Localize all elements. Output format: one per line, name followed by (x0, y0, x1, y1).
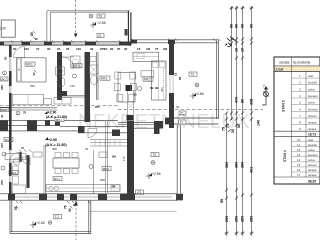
svg-text:11: 11 (297, 143, 300, 147)
chain tick cluster lower (225, 189, 253, 200)
svg-text:13: 13 (297, 153, 301, 157)
svg-text:10: 10 (235, 48, 239, 52)
svg-text:T3: T3 (190, 73, 194, 77)
pier middle band 2c (55, 120, 60, 125)
svg-text:255: 255 (95, 105, 100, 109)
toilet WC2 (91, 76, 98, 85)
label MK1 lower dining (53, 177, 62, 181)
svg-text:2M: 2M (163, 47, 168, 51)
chain labels top (230, 24, 254, 28)
yellow floor row 2.kat (275, 66, 320, 71)
label Z1 right (179, 111, 186, 115)
chairs lower dining bottom (55, 169, 61, 174)
svg-text:380: 380 (241, 162, 245, 168)
pier bottom wall 2 (39, 194, 47, 200)
table header row (274, 65, 320, 67)
svg-text:250: 250 (235, 216, 239, 222)
svg-text:MK1: MK1 (101, 77, 108, 81)
label MK2 lower (102, 167, 111, 171)
right terrace outer edge (217, 40, 219, 119)
corridor walls lower (106, 121, 108, 193)
svg-text:90: 90 (47, 47, 51, 51)
pier middle band 1 (0, 120, 8, 130)
bedroom bottom wall (0, 108, 57, 110)
middle wall band right lines (118, 122, 163, 128)
terrace T3 lower-right: right edge (177, 125, 180, 201)
svg-text:STAN 4: STAN 4 (283, 150, 287, 162)
window thin lines top wall (4, 43, 131, 44)
pier bottom wall 5 (98, 194, 107, 200)
shower bath1 (71, 56, 81, 68)
label T3 lower-right terrace (151, 153, 159, 157)
pier top-right wall a (131, 40, 137, 44)
svg-text:250: 250 (0, 180, 4, 185)
label MK1 above band (55, 118, 64, 122)
label MK3 bath1 (72, 64, 82, 68)
label Z1 top terrace (97, 34, 104, 38)
bath bottom wall (57, 91, 67, 96)
window gap left wall lower (9, 150, 12, 163)
svg-text:Z1: Z1 (180, 121, 184, 125)
svg-text:90: 90 (250, 24, 254, 28)
svg-text:75: 75 (222, 127, 226, 131)
terrace step line below bottom wall (89, 210, 177, 212)
middle band right part under terrace T3 (165, 118, 218, 124)
door arc entry (88, 129, 97, 138)
svg-text:95: 95 (66, 47, 70, 51)
svg-text:soba: soba (308, 101, 315, 105)
svg-text:170: 170 (122, 156, 126, 161)
svg-text:25: 25 (117, 47, 121, 51)
window gap left wall (9, 57, 12, 71)
circled 1 living (138, 87, 142, 91)
circled label left low (2, 152, 6, 156)
svg-text:15: 15 (174, 72, 178, 76)
pier top wall 6 (119, 42, 131, 46)
svg-text:+2.90: +2.90 (48, 111, 57, 115)
chain tick cluster middle (225, 112, 253, 133)
cabinet row lower-left bottom (13, 185, 26, 194)
pier middle band 5 (154, 121, 163, 128)
svg-text:388: 388 (52, 147, 57, 151)
chain labels mid1 (235, 48, 254, 105)
wall WC right (97, 52, 99, 100)
pier top wall 2 (22, 42, 31, 46)
svg-text:365: 365 (250, 99, 254, 105)
window gap left wall mid (9, 86, 12, 93)
ticks on top wall (11, 38, 221, 43)
svg-text:90: 90 (110, 47, 114, 51)
dimension marks bottom area (16, 201, 91, 209)
table row numbers and names STAN 4 (297, 138, 318, 177)
door arc bath1 (62, 57, 74, 69)
svg-text:71: 71 (226, 124, 230, 128)
svg-text:250: 250 (241, 216, 245, 222)
svg-text:kupaon: kupaon (308, 153, 318, 157)
circled dot lower-right (151, 161, 155, 165)
svg-text:30: 30 (134, 93, 138, 97)
chain top end ticks (230, 7, 254, 10)
svg-text:90: 90 (235, 24, 239, 28)
svg-text:soba: soba (308, 148, 315, 152)
dense tick cluster at wall/chain crossing (227, 37, 237, 47)
pier right band (165, 118, 172, 124)
svg-text:dnevni: dnevni (308, 163, 317, 167)
pier bottom wall 3 (57, 194, 64, 200)
window thin lines bottom wall (15, 196, 172, 197)
chairs upper dining (115, 72, 121, 79)
svg-text:285: 285 (0, 85, 4, 90)
vertical dimension chain lines right side (231, 6, 233, 120)
svg-text:T3: T3 (152, 153, 156, 157)
bed bedroom1 (17, 58, 46, 82)
table outer border (274, 57, 320, 184)
interior wall stub (154, 121, 160, 134)
circled dot bottom terrace (48, 221, 52, 225)
svg-text:55: 55 (14, 206, 18, 210)
svg-text:terasa: terasa (308, 168, 317, 172)
svg-text:hodnik: hodnik (308, 143, 317, 147)
top outer wall band left section lines (0, 42, 131, 45)
interior wall lower right thick (126, 85, 133, 91)
circled 5 bath (73, 74, 77, 78)
middle wall band left lines (0, 120, 118, 130)
label MK3 bedroom1 (25, 62, 35, 66)
svg-text:75: 75 (155, 47, 159, 51)
window gap left wall low2 (9, 176, 12, 182)
svg-text:80: 80 (241, 99, 245, 103)
svg-text:MK3: MK3 (73, 64, 80, 68)
svg-text:90: 90 (4, 56, 8, 60)
svg-text:soba: soba (308, 87, 315, 91)
label Z1 right band (179, 120, 187, 124)
svg-text:kupaon: kupaon (308, 94, 318, 98)
svg-text:30: 30 (68, 208, 72, 212)
door arc lower-left b (22, 157, 30, 165)
divider lower-left (44, 145, 45, 194)
svg-text:90: 90 (32, 72, 36, 76)
svg-text:14: 14 (297, 158, 301, 162)
svg-text:STAN 5: STAN 5 (282, 100, 286, 112)
hall cabinets (44, 99, 52, 105)
dining table upper (118, 73, 135, 103)
terrace T2 right edge (89, 200, 91, 234)
svg-text:Z1: Z1 (98, 34, 102, 38)
svg-text:30: 30 (231, 129, 235, 133)
svg-text:MK2: MK2 (1, 77, 8, 81)
circled 9 lower-left (1, 166, 5, 170)
boiler lower-left room (13, 158, 20, 165)
svg-text:18: 18 (137, 47, 141, 51)
top wall right section (terrace parapet) (131, 40, 218, 43)
svg-text:470: 470 (235, 97, 239, 103)
svg-text:+2.85: +2.85 (36, 221, 45, 225)
svg-text:terasa: terasa (308, 121, 317, 125)
svg-text:2M: 2M (112, 155, 117, 159)
svg-text:30: 30 (176, 105, 180, 109)
svg-text:30: 30 (0, 114, 4, 118)
label T3 upper-right terrace (189, 72, 197, 76)
middle wall band center lines (60, 127, 134, 133)
terrace T2 bottom edge (10, 232, 91, 234)
pier top wall 4 (63, 42, 71, 46)
svg-text:2: 2 (263, 84, 265, 88)
wall thick right edge of top terrace (128, 11, 131, 45)
divider lower mid (92, 150, 94, 194)
window gap right wall (169, 75, 175, 93)
svg-text:15: 15 (297, 163, 301, 167)
svg-text:+2.86: +2.86 (195, 92, 204, 96)
dresser bedroom1 (12, 94, 44, 104)
svg-text:10: 10 (241, 48, 245, 52)
table column lines (291, 57, 293, 177)
svg-text:380: 380 (225, 162, 229, 168)
pier top wall 5 (85, 42, 96, 46)
label T.2 bottom terrace (54, 215, 62, 219)
svg-text:250: 250 (250, 216, 254, 222)
pillow 1 (18, 59, 21, 68)
svg-text:2M: 2M (112, 185, 117, 189)
svg-text:8B: 8B (150, 86, 154, 90)
pier middle band 2 (27, 120, 37, 130)
svg-text:30: 30 (237, 124, 241, 128)
label MK3 lower-left (9, 171, 18, 175)
interior wall lower-left room (27, 155, 30, 188)
ticks mid lines (235, 57, 244, 60)
svg-text:terasa: terasa (308, 173, 317, 177)
svg-text:ulaz: ulaz (308, 138, 314, 142)
svg-text:MK1: MK1 (5, 138, 12, 142)
pier bottom wall 4 (70, 194, 77, 200)
svg-text:120: 120 (76, 47, 81, 51)
subtotal row (274, 136, 320, 138)
bottom outer wall (0, 194, 178, 200)
small dim cluster top-left (30, 32, 39, 40)
pier middle band 2b (45, 120, 50, 125)
circled 2 (16, 111, 20, 115)
svg-text:MK2: MK2 (144, 78, 151, 82)
table row numbers and names STAN 5 (299, 74, 318, 131)
svg-text:12: 12 (297, 148, 301, 152)
svg-text:240: 240 (24, 47, 29, 51)
svg-text:tip prostorije: tip prostorije (293, 61, 311, 65)
svg-text:8: 8 (73, 204, 77, 206)
fixtures lower-left wall column (13, 166, 19, 174)
table row lines STAN 5 (292, 78, 320, 125)
dashed vertical in terrace T2 (75, 200, 77, 240)
dim cluster mid kitchen (128, 43, 132, 47)
interior wall bedroom/bath (57, 52, 62, 100)
tick cluster hall lower-left (19, 150, 32, 153)
svg-text:kuhinja: kuhinja (308, 107, 318, 111)
svg-text:1M: 1M (146, 47, 151, 51)
svg-text:oznaka: oznaka (279, 61, 290, 65)
circled dot upper-right (195, 83, 199, 87)
label MK2 living upper (143, 77, 153, 81)
kitchen counter upper (133, 52, 159, 61)
svg-text:30: 30 (90, 47, 94, 51)
table row lines STAN 4 (292, 142, 320, 172)
pier bottom wall 7 (176, 194, 183, 200)
chairs lower dining top (55, 153, 61, 158)
label MK2 left edge (0, 77, 8, 81)
svg-text:85: 85 (30, 32, 34, 36)
sink (137, 54, 144, 59)
toilet bath1 (57, 77, 65, 87)
interior dim numbers (30, 84, 180, 182)
sideboard lower (99, 152, 107, 158)
svg-text:17: 17 (297, 173, 301, 177)
svg-text:70: 70 (36, 47, 40, 51)
pier middle band 3b (112, 130, 120, 137)
circled 1 lower (89, 165, 93, 169)
svg-text:LUX: LUX (55, 219, 60, 222)
svg-text:MK3: MK3 (26, 63, 33, 67)
svg-text:45: 45 (128, 43, 132, 47)
tall unit kitchen (152, 61, 167, 100)
svg-text:MK3: MK3 (10, 171, 16, 175)
chain mid ticks at wall (230, 38, 253, 45)
svg-text:T2: T2 (98, 14, 102, 18)
svg-text:16: 16 (297, 168, 301, 172)
svg-text:120: 120 (70, 84, 75, 88)
pier bottom wall 6 (120, 194, 135, 200)
svg-text:90: 90 (230, 24, 234, 28)
kitchen counter lower (46, 185, 120, 192)
radiator on terrace wall (125, 29, 128, 36)
label MK1 middle (4, 138, 13, 142)
svg-text:MK1: MK1 (56, 118, 63, 122)
dark door leaf (20, 152, 22, 162)
label MK1 WC (100, 76, 110, 80)
svg-text:431: 431 (250, 167, 254, 173)
terrace T2 bottom-left: left edge (10, 200, 12, 234)
svg-text:305: 305 (160, 87, 164, 92)
svg-text:+2.86: +2.86 (152, 172, 161, 176)
door arc lower-left a (10, 153, 20, 163)
svg-text:10: 10 (297, 138, 301, 142)
svg-text:98,35: 98,35 (308, 180, 316, 184)
sofa upper living (141, 71, 154, 77)
corridor horizontal lines / stair (90, 140, 127, 147)
pillow 2 (18, 71, 21, 81)
sink WC2 (90, 57, 96, 62)
right outer wall upper apartment (169, 40, 174, 128)
pier bottom wall 1 (8, 194, 15, 200)
svg-text:+2.38: +2.38 (0, 27, 6, 31)
svg-text:MK3: MK3 (1, 108, 8, 112)
svg-text:30: 30 (85, 147, 89, 151)
cabinets lower-left room (5, 154, 26, 160)
circled 3 bedroom (3, 71, 7, 75)
dimension text row below top wall (13, 47, 168, 51)
svg-text:78: 78 (23, 111, 27, 115)
svg-text:soba: soba (308, 158, 315, 162)
appliance lower kitchen (49, 186, 53, 190)
svg-text:30: 30 (13, 47, 17, 51)
svg-text:55: 55 (220, 199, 224, 203)
left outer wall (9, 45, 12, 196)
svg-text:25: 25 (57, 47, 61, 51)
dining table lower (53, 158, 79, 168)
circled 8 top terrace (89, 14, 93, 18)
svg-text:dnevni: dnevni (308, 114, 317, 118)
svg-text:ulaz: ulaz (308, 74, 314, 78)
svg-text:160: 160 (0, 143, 4, 148)
door arc bedroom1 (14, 47, 25, 58)
svg-text:80: 80 (178, 76, 182, 80)
svg-text:75: 75 (21, 146, 25, 150)
left edge vertical dim numbers (0, 56, 8, 185)
pier top-right wall b (168, 40, 175, 45)
GD box lower hall (33, 152, 42, 157)
terrace top-center left edge (47, 11, 51, 42)
interior wall bath right (85, 52, 91, 122)
pier middle band 3 (78, 126, 85, 133)
svg-text:35: 35 (124, 47, 128, 51)
terrace top-center top edge (47, 11, 130, 12)
chain bottom end ticks (225, 232, 254, 235)
label T2 top terrace (97, 14, 105, 18)
svg-text:hodnik: hodnik (308, 81, 317, 85)
dashed section line horizontal (0, 105, 118, 107)
svg-text:Z1: Z1 (138, 190, 142, 194)
label MK3 wardrobe row (0, 107, 9, 111)
svg-text:250: 250 (225, 216, 229, 222)
svg-text:18,73: 18,73 (308, 133, 316, 137)
terrace top-left outline (1, 20, 15, 37)
washing machine (90, 65, 99, 74)
svg-text:208: 208 (100, 178, 105, 182)
dashed vertical axis top (75, 0, 77, 36)
svg-text:15: 15 (104, 47, 108, 51)
svg-text:terasa: terasa (308, 127, 317, 131)
svg-text:MK1: MK1 (54, 177, 61, 181)
washbasin bath1 (56, 67, 65, 75)
svg-text:90: 90 (241, 24, 245, 28)
svg-text:9B: 9B (155, 86, 159, 90)
label Z1 bottom (136, 190, 144, 194)
pier top wall 1 (0, 42, 4, 46)
pier top wall 3 (44, 42, 52, 46)
svg-text:140: 140 (257, 120, 261, 126)
svg-text:75: 75 (64, 205, 68, 209)
svg-text:380: 380 (235, 162, 239, 168)
section marker symbol right (262, 89, 269, 105)
svg-text:2.kat: 2.kat (276, 67, 285, 71)
svg-text:Z1: Z1 (180, 111, 184, 115)
svg-text:MK2: MK2 (103, 167, 110, 171)
svg-text:+2.90: +2.90 (48, 138, 57, 142)
svg-text:+2.86: +2.86 (97, 21, 106, 25)
svg-text:290: 290 (30, 84, 35, 88)
